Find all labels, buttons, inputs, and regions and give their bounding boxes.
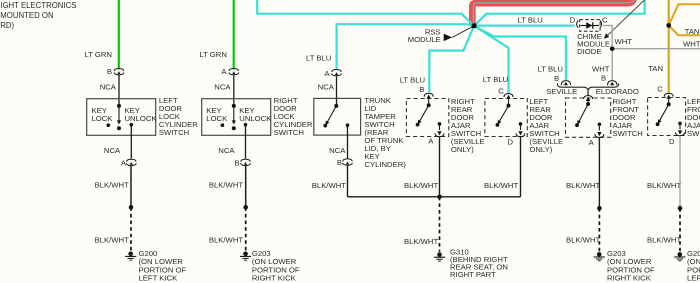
wire box4 connector to blade (428, 98, 430, 105)
label G200 (ON LOWER PORTION OF LEFT KICK 2 (687, 249, 700, 283)
junction box7 ground (678, 206, 683, 211)
connector A col2 (229, 69, 239, 75)
wire WHT diode C to splice (603, 26, 612, 49)
switch SW1 key unlock contact (130, 123, 134, 127)
switch SW7 blade (656, 102, 671, 126)
svg-text:D: D (570, 15, 576, 24)
wire LT BLU splice to right rear ajar C (474, 26, 509, 94)
svg-text:BLK/WHT: BLK/WHT (647, 235, 681, 244)
switch SW6 blade (575, 102, 590, 127)
junction bus G310 (437, 195, 442, 200)
ground G200 (left kick) (125, 252, 136, 261)
switch SW3 blade (323, 104, 338, 128)
svg-text:WHT: WHT (615, 37, 633, 46)
label NCA (col1 top) (100, 82, 117, 91)
connector B seville (561, 81, 570, 86)
svg-text:NCA: NCA (214, 82, 231, 91)
wire col1 to splice (130, 166, 132, 208)
label LT GRN (left) (85, 50, 112, 59)
svg-text:BLK/WHT: BLK/WHT (404, 181, 438, 190)
label SEVILLE (546, 87, 577, 96)
wire LT BLU splice to SEVILLE B (474, 26, 566, 80)
label LEFT DOOR LOCK CYLINDER SWITCH (159, 96, 198, 137)
label BLK/WHT (box5) (484, 181, 518, 190)
connector B col3 (343, 159, 353, 165)
switch SW2 right door lock cylinder box (202, 99, 271, 136)
label BLK/WHT (box6 lower) (566, 235, 600, 244)
svg-text:B: B (601, 74, 606, 83)
switch SW7 contact (678, 122, 682, 130)
label BLK/WHT (box7 lower) (647, 235, 681, 244)
svg-text:IGHT ELECTRONICS: IGHT ELECTRONICS (0, 1, 76, 10)
connector A box4 (435, 131, 444, 136)
switch SW1 blade (117, 104, 121, 130)
switch SW2 key unlock contact (244, 123, 248, 127)
connector D box7 (676, 130, 685, 135)
svg-text:BLK/WHT: BLK/WHT (95, 235, 129, 244)
wire col2 switch to connector B (245, 125, 247, 159)
label A (box6 bottom) (589, 138, 595, 147)
label BLK/WHT (col1 lower) (95, 235, 129, 244)
label BLK/WHT (box4) (404, 181, 438, 190)
connector B box4 (424, 93, 433, 98)
svg-text:NCA: NCA (104, 146, 121, 155)
label D (diode left pin) (570, 15, 576, 24)
label KEY LOCK (col2) (206, 106, 228, 123)
wire LT GRN 1 (left door lock) (118, 0, 120, 70)
wire LT BLU from top-left to splice (257, 0, 474, 26)
wire ground bus (348, 196, 521, 198)
connector C box7 (664, 93, 673, 98)
label RIGHT FRONT DOOR AJAR SWITCH (613, 97, 643, 138)
wire box7 dashed to ground (679, 208, 681, 251)
svg-text:NCA: NCA (329, 146, 346, 155)
label WHT (eldorado) (592, 64, 610, 73)
wire box6 to splice (598, 138, 600, 209)
label C (box7 top) (657, 85, 663, 94)
svg-text:D: D (669, 137, 675, 146)
svg-text:SWITCH: SWITCH (274, 128, 304, 137)
svg-text:BLK/WHT: BLK/WHT (209, 235, 243, 244)
svg-text:BLK/WHT: BLK/WHT (484, 181, 518, 190)
svg-text:NCA: NCA (318, 82, 335, 91)
label B (col1 top) (107, 67, 112, 76)
svg-text:ELDORADO: ELDORADO (596, 87, 639, 96)
label RIGHT DOOR LOCK CYLINDER SWITCH (274, 96, 313, 137)
svg-text:ONLY): ONLY) (529, 145, 552, 154)
wire col3 to bus (347, 165, 349, 196)
label CHIME MODULE DIODE (577, 32, 610, 56)
wire col3 connector to switch (336, 76, 338, 106)
svg-text:BLK/WHT: BLK/WHT (566, 235, 600, 244)
svg-text:BLK/WHT: BLK/WHT (566, 181, 600, 190)
wire box5 to bus (520, 137, 522, 197)
wire TAN vertical (left front door) (668, 0, 670, 93)
label NCA (col1 bottom) (104, 146, 121, 155)
label A (col1 bottom) (121, 159, 127, 168)
wire TAN branch upper right (669, 4, 700, 25)
svg-text:BLK/WHT: BLK/WHT (95, 181, 129, 190)
label WHT (below diode) (615, 37, 633, 46)
brace seville/eldorado (557, 83, 618, 91)
svg-text:C: C (602, 15, 608, 24)
svg-text:SWITCH: SWITCH (687, 129, 700, 138)
svg-text:TAN: TAN (685, 27, 700, 36)
switch SW4 blade (416, 103, 431, 126)
svg-text:SWITCH: SWITCH (613, 129, 643, 138)
connector D box5 (516, 131, 525, 136)
callout arrow to chime module diode (604, 0, 646, 39)
svg-text:TAN: TAN (648, 64, 663, 73)
diode CR1 chime module diode (580, 20, 600, 32)
svg-text:LT BLU: LT BLU (538, 64, 563, 73)
label A (box4 bottom) (428, 136, 434, 145)
svg-text:RIGHT KICK: RIGHT KICK (607, 274, 652, 283)
label LT BLU (trunk) (306, 54, 331, 63)
svg-text:LT BLU: LT BLU (518, 16, 543, 25)
connector arc diode C (600, 20, 602, 27)
junction box6 ground (597, 206, 602, 211)
label LEFT REAR DOOR AJAR SWITCH (SEVILLE ONLY) (529, 97, 563, 154)
switch SW1 left door lock cylinder box (87, 99, 156, 136)
label KEY UNLOCK (col2) (239, 106, 272, 123)
wire col2 to splice (245, 166, 247, 208)
svg-text:B: B (337, 158, 342, 167)
svg-text:A: A (589, 138, 595, 147)
wire LT BLU splice to trunk switch (337, 24, 474, 69)
connector arc diode D (577, 20, 579, 27)
label A (col3 top) (324, 69, 330, 78)
wire col1 dashed to ground (130, 207, 132, 251)
connector B eldorado (608, 81, 617, 86)
svg-text:SWITCH: SWITCH (159, 128, 189, 137)
svg-text:LT BLU: LT BLU (483, 75, 508, 84)
svg-text:A: A (324, 69, 330, 78)
svg-text:ONLY): ONLY) (451, 145, 474, 154)
connector B col2 (241, 159, 251, 165)
svg-text:BLK/WHT: BLK/WHT (312, 181, 346, 190)
wire box7 connector to blade (668, 98, 670, 104)
label LEFT FRONT DOOR AJAR SWITCH (687, 97, 700, 138)
switch SW6 contact (598, 123, 602, 131)
label WHT (right edge) (683, 39, 700, 48)
label LT BLU (top center) (518, 16, 543, 25)
ground G203 (right kick 2) (594, 252, 605, 261)
label NCA (col2 top) (214, 82, 231, 91)
splice S (RSS module hub) (472, 24, 477, 29)
label BLK/WHT (col3) (312, 181, 346, 190)
ground G310 (434, 252, 445, 261)
svg-text:RIGHT PART: RIGHT PART (450, 270, 496, 279)
svg-text:WHT: WHT (592, 64, 610, 73)
svg-text:BLK/WHT: BLK/WHT (209, 181, 243, 190)
svg-text:MOUNTED ON: MOUNTED ON (0, 11, 53, 20)
switch SW5 left rear door ajar box (485, 99, 527, 137)
connector A col1 (126, 159, 136, 165)
label G203 (ON LOWER PORTION OF RIGHT KICK (252, 249, 300, 283)
wire G310 dashed drop (439, 197, 441, 252)
label BLK/WHT (G310) (404, 237, 438, 246)
svg-text:A: A (121, 159, 127, 168)
label TRUNK LID TAMPER SWITCH (REAR OF TRUNK LID, BY KEY CYLINDER) (364, 96, 406, 169)
wire LT BLU splice to right rear ajar B (429, 26, 474, 92)
svg-text:LT BLU: LT BLU (306, 54, 331, 63)
label LT BLU (rr ajar B) (400, 76, 425, 85)
svg-text:B: B (107, 67, 112, 76)
label LT BLU (seville) (538, 64, 563, 73)
svg-text:B: B (554, 74, 559, 83)
wire brace to right front ajar switch (587, 91, 589, 95)
switch SW5 blade (496, 104, 511, 127)
label B (eldorado) (601, 74, 606, 83)
svg-text:LT GRN: LT GRN (85, 50, 112, 59)
note text (right electronics mounted on board) (0, 1, 76, 30)
label NCA (col3 bottom) (329, 146, 346, 155)
svg-text:RIGHT KICK: RIGHT KICK (252, 274, 297, 283)
switch SW2 blade (232, 104, 236, 130)
connector A box6 (595, 132, 604, 137)
label TAN (lf door C) (648, 64, 663, 73)
wire LT BLU splice to top-right exit (474, 0, 645, 26)
svg-text:CYLINDER): CYLINDER) (364, 160, 406, 169)
svg-text:UNLOCK: UNLOCK (125, 114, 158, 123)
label C (box5 top) (498, 86, 504, 95)
wire box6 dashed to ground (598, 208, 600, 251)
svg-text:BLK/WHT: BLK/WHT (404, 237, 438, 246)
svg-text:MODULE: MODULE (408, 35, 441, 44)
junction col2 (243, 205, 248, 210)
label BLK/WHT (box7 upper) (647, 181, 681, 190)
label D (box5 bottom) (508, 138, 514, 147)
switch SW2 key lock contact (221, 123, 225, 127)
wire col2 dashed to ground (245, 207, 247, 251)
switch SW3 trunk lid tamper box (314, 98, 361, 135)
label D (box7 bottom) (669, 137, 675, 146)
connector box6 top (584, 96, 593, 101)
label BLK/WHT (box6 upper) (566, 181, 600, 190)
label BLK/WHT (col2 lower) (209, 235, 243, 244)
wire TAN branch lower right (669, 25, 700, 35)
svg-text:SEVILLE: SEVILLE (546, 87, 577, 96)
label BLK/WHT (col1 upper) (95, 181, 129, 190)
junction col1 (129, 205, 134, 210)
label B (col3 bottom) (337, 158, 342, 167)
label NCA (col2 bottom) (218, 146, 235, 155)
svg-text:B: B (419, 85, 424, 94)
label C (diode right pin) (602, 15, 608, 24)
svg-text:LEFT KICK: LEFT KICK (687, 274, 700, 283)
junction WHT splice (610, 46, 615, 51)
wire box4 to bus (439, 137, 441, 197)
svg-text:BLK/WHT: BLK/WHT (647, 181, 681, 190)
wire box6 connector to blade (587, 101, 589, 104)
label TAN (right edge) (685, 27, 700, 36)
svg-text:B: B (234, 159, 239, 168)
callout RSS MODULE (408, 27, 473, 44)
label A (col2 top) (221, 67, 227, 76)
ground G203 (right kick) (240, 252, 251, 261)
svg-text:LT BLU: LT BLU (400, 76, 425, 85)
connector A col3 (332, 70, 342, 76)
label RIGHT REAR DOOR AJAR SWITCH (SEVILLE ONLY) (451, 97, 485, 154)
label LT GRN (right) (199, 50, 226, 59)
label BLK/WHT (col2 upper) (209, 181, 243, 190)
label B (seville) (554, 74, 559, 83)
label B (col2 bottom) (234, 159, 239, 168)
connector B col1 (114, 69, 124, 75)
switch SW4 right rear door ajar box (406, 99, 448, 137)
label NCA (col3 top) (318, 82, 335, 91)
wire box5 connector to blade (508, 99, 510, 106)
wire RED with WHT stripe (battery feed) (472, 0, 635, 25)
svg-text:LEFT KICK: LEFT KICK (139, 274, 179, 283)
wire WHT splice to ELDORADO B (611, 49, 613, 80)
wire col2 connector to switch (233, 75, 235, 106)
svg-text:NCA: NCA (100, 82, 117, 91)
label LT BLU (lr ajar C) (483, 75, 508, 84)
switch SW6 right front door ajar box (566, 98, 611, 137)
svg-text:D: D (508, 138, 514, 147)
label G310 (BEHIND RIGHT REAR SEAT, ON RIGHT PART (450, 247, 508, 279)
wire WHT splice to right edge (612, 48, 700, 50)
svg-text:UNLOCK: UNLOCK (239, 114, 272, 123)
svg-text:RD): RD) (0, 21, 14, 30)
switch SW3 contact (346, 123, 350, 127)
label ELDORADO (596, 87, 639, 96)
junction TAN splice (666, 23, 671, 28)
svg-text:WHT: WHT (683, 39, 700, 48)
wire col1 switch to connector A (130, 125, 132, 159)
switch SW7 left front door ajar box (648, 98, 686, 136)
svg-text:DIODE: DIODE (577, 47, 601, 56)
switch SW1 key lock contact (107, 123, 111, 127)
label KEY LOCK (col1) (92, 106, 114, 123)
label G200 (ON LOWER PORTION OF LEFT KICK (139, 249, 187, 283)
svg-text:A: A (221, 67, 227, 76)
label G203 (ON LOWER PORTION OF RIGHT KICK 2 (607, 249, 655, 283)
label KEY UNLOCK (col1) (125, 106, 158, 123)
wire col3 switch to connector B (347, 125, 349, 158)
wire LT BLU splice to chime module diode D (475, 25, 575, 27)
wire LT GRN 2 (right door lock) (233, 0, 235, 70)
connector C box5 (504, 94, 513, 99)
label B (box4 top) (419, 85, 424, 94)
svg-text:A: A (428, 136, 434, 145)
switch SW4 contact (438, 122, 442, 130)
svg-text:LT GRN: LT GRN (199, 50, 226, 59)
svg-text:C: C (657, 85, 663, 94)
wire col1 connector to switch (118, 75, 120, 106)
svg-text:LOCK: LOCK (206, 114, 228, 123)
svg-text:C: C (498, 86, 504, 95)
switch SW5 contact (519, 122, 523, 130)
ground G200 (left kick 2) (674, 252, 685, 261)
wire WHT box7 to splice (679, 136, 681, 208)
svg-text:NCA: NCA (218, 146, 235, 155)
svg-text:LOCK: LOCK (92, 114, 114, 123)
